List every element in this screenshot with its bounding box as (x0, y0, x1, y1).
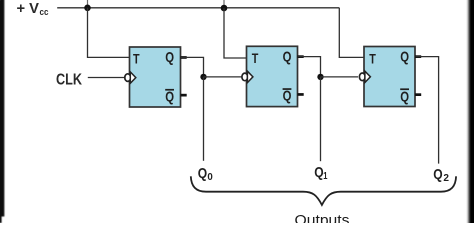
node A junction dot (84, 5, 91, 12)
wire Vcc drop to FF3 T (339, 8, 364, 58)
pin U3 Q stub (415, 55, 421, 58)
wire node C to U2 clock (204, 76, 242, 78)
svg-text:Q: Q (283, 88, 292, 105)
wire U1 Q to node C (181, 57, 204, 77)
svg-text:Q: Q (400, 89, 409, 106)
node D junction dot (317, 74, 323, 80)
svg-text:Q: Q (165, 49, 174, 66)
label Q2 (433, 166, 449, 184)
svg-text:T: T (252, 50, 259, 66)
label Q1 (314, 164, 327, 182)
svg-text:Q: Q (283, 48, 292, 65)
svg-text:0: 0 (207, 172, 213, 183)
clock triangle U2 (247, 71, 253, 82)
wire node D to U3 clock (321, 76, 359, 78)
wire Vcc drop to FF1 T (88, 8, 130, 58)
wire stub above node A (87, 0, 89, 6)
pin U1 Q stub (181, 56, 187, 59)
clock bubble U1 (125, 74, 131, 82)
wire Vcc rail (57, 7, 339, 9)
clock triangle U3 (365, 71, 371, 82)
wire node D down to Q1 (320, 77, 322, 161)
label U1 Qbar (165, 88, 174, 105)
svg-text:1: 1 (323, 171, 328, 182)
wire Vcc drop to FF2 T (224, 8, 247, 58)
wire U3 Q down to Q2 (416, 57, 439, 164)
clock bubble U3 (359, 73, 365, 81)
pin U2 Q stub (298, 55, 304, 58)
flip-flop U1 body (130, 47, 181, 107)
svg-text:Q: Q (165, 88, 174, 105)
svg-text:cc: cc (40, 7, 49, 17)
clock triangle U1 (130, 72, 136, 83)
label Q0 (198, 165, 214, 183)
clock bubble U2 (242, 73, 248, 81)
svg-text:T: T (369, 50, 376, 66)
pin U3 Qbar stub (415, 93, 421, 96)
flip-flop U3 body (364, 47, 415, 107)
border bar left (0, 0, 4, 223)
node B junction dot (221, 5, 228, 12)
label +Vcc (17, 0, 49, 17)
wire node C down to Q0 (203, 77, 205, 161)
node C junction dot (200, 74, 206, 80)
flip-flop U2 body (247, 46, 298, 106)
label U3 Qbar (400, 88, 409, 105)
label U2 Qbar (283, 88, 292, 105)
wire U2 Q to node D (298, 57, 321, 77)
svg-text:Q: Q (400, 49, 409, 66)
wire stub above node B (223, 0, 225, 6)
svg-text:Outputs: Outputs (295, 212, 350, 223)
svg-text:CLK: CLK (56, 71, 83, 88)
border bar right (466, 0, 474, 223)
wire CLK input (88, 77, 125, 79)
pin U2 Qbar stub (298, 93, 304, 96)
pin U1 Qbar stub (181, 94, 187, 97)
svg-text:T: T (133, 51, 140, 67)
svg-text:Q: Q (433, 166, 443, 183)
svg-text:2: 2 (443, 173, 449, 184)
brace outputs (191, 176, 456, 205)
svg-text:Q: Q (198, 165, 208, 182)
svg-text:+ V: + V (17, 0, 40, 17)
